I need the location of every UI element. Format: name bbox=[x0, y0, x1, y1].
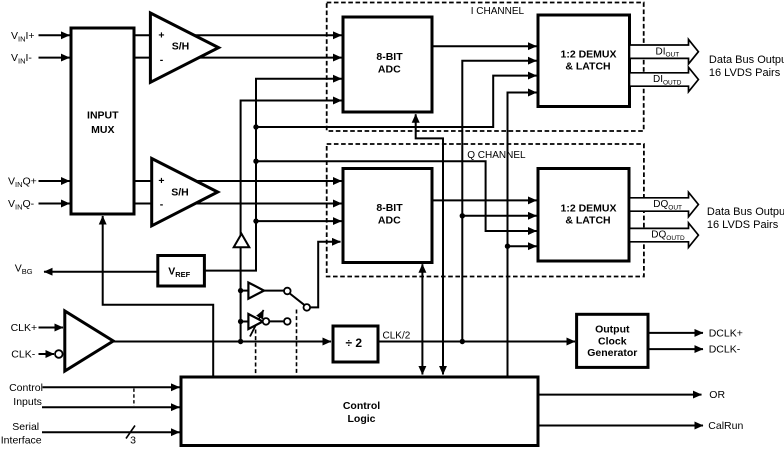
svg-text:INPUT: INPUT bbox=[87, 110, 119, 122]
svg-text:CLK+: CLK+ bbox=[11, 322, 38, 334]
svg-text:CLK-: CLK- bbox=[11, 349, 35, 361]
svg-text:I CHANNEL: I CHANNEL bbox=[471, 6, 525, 17]
svg-text:Control: Control bbox=[343, 400, 380, 412]
svg-text:Control: Control bbox=[9, 382, 43, 394]
svg-text:Output: Output bbox=[595, 324, 630, 336]
svg-text:Clock: Clock bbox=[598, 335, 627, 347]
svg-text:-: - bbox=[160, 199, 164, 211]
svg-text:& LATCH: & LATCH bbox=[565, 61, 610, 73]
svg-text:÷ 2: ÷ 2 bbox=[346, 336, 363, 350]
svg-text:VINQ+: VINQ+ bbox=[8, 176, 37, 190]
svg-text:S/H: S/H bbox=[171, 187, 189, 199]
svg-text:8-BIT: 8-BIT bbox=[376, 202, 403, 214]
svg-text:16 LVDS Pairs: 16 LVDS Pairs bbox=[709, 67, 781, 79]
svg-text:S/H: S/H bbox=[172, 41, 190, 53]
svg-text:Data Bus Output: Data Bus Output bbox=[707, 206, 784, 218]
svg-text:ADC: ADC bbox=[378, 214, 401, 226]
svg-text:+: + bbox=[158, 30, 164, 42]
svg-text:Data Bus Output: Data Bus Output bbox=[709, 54, 784, 66]
svg-text:Logic: Logic bbox=[348, 413, 376, 425]
svg-text:& LATCH: & LATCH bbox=[565, 214, 610, 226]
svg-text:DCLK+: DCLK+ bbox=[709, 327, 743, 339]
svg-text:Serial: Serial bbox=[12, 421, 39, 433]
svg-text:8-BIT: 8-BIT bbox=[376, 51, 403, 63]
svg-text:ADC: ADC bbox=[378, 64, 401, 76]
svg-text:Q CHANNEL: Q CHANNEL bbox=[467, 150, 526, 161]
svg-text:Interface: Interface bbox=[1, 434, 42, 446]
svg-text:Generator: Generator bbox=[587, 347, 637, 359]
svg-text:OR: OR bbox=[709, 389, 725, 401]
svg-text:MUX: MUX bbox=[91, 124, 114, 136]
svg-text:+: + bbox=[158, 175, 164, 187]
svg-text:3: 3 bbox=[130, 434, 136, 446]
svg-text:Inputs: Inputs bbox=[13, 396, 42, 408]
svg-text:1:2 DEMUX: 1:2 DEMUX bbox=[560, 203, 616, 215]
svg-text:1:2 DEMUX: 1:2 DEMUX bbox=[560, 49, 616, 61]
svg-text:DCLK-: DCLK- bbox=[709, 344, 741, 356]
svg-text:-: - bbox=[160, 54, 164, 66]
svg-text:CalRun: CalRun bbox=[708, 420, 743, 432]
svg-text:CLK/2: CLK/2 bbox=[383, 331, 411, 342]
svg-text:16 LVDS Pairs: 16 LVDS Pairs bbox=[707, 219, 779, 231]
